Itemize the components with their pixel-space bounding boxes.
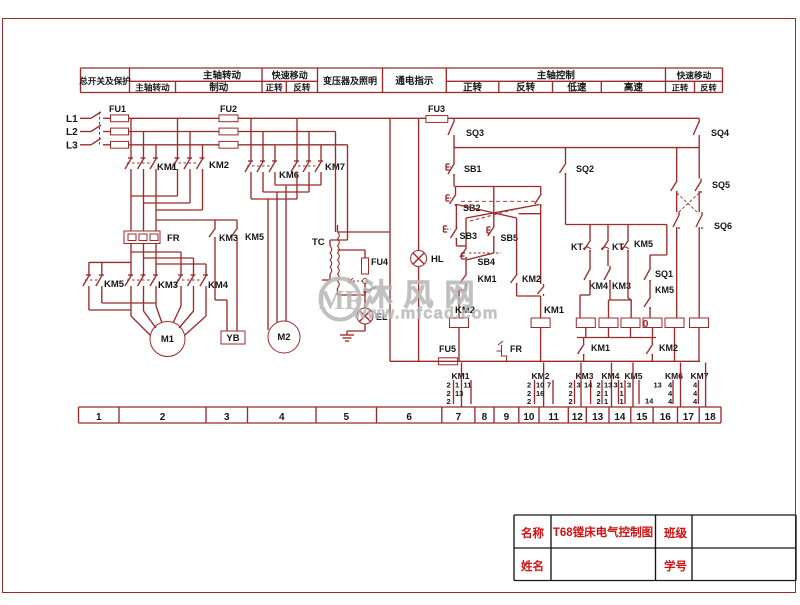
svg-text:通电指示: 通电指示 [395, 75, 434, 87]
svg-text:2: 2 [447, 397, 451, 406]
svg-text:KM3: KM3 [219, 233, 238, 243]
svg-text:9: 9 [504, 412, 510, 423]
svg-text:TC: TC [312, 237, 325, 248]
svg-text:L2: L2 [66, 127, 78, 138]
svg-text:KM5: KM5 [655, 285, 674, 295]
svg-text:13: 13 [592, 412, 604, 423]
svg-text:16: 16 [536, 389, 544, 398]
svg-text:FU1: FU1 [109, 104, 126, 114]
svg-text:SQ1: SQ1 [655, 269, 673, 279]
svg-text:KT: KT [571, 242, 583, 252]
svg-text:SQ3: SQ3 [466, 128, 484, 138]
svg-text:6: 6 [406, 412, 412, 423]
svg-text:快速移动: 快速移动 [677, 70, 712, 81]
svg-text:KM2: KM2 [209, 160, 229, 171]
svg-text:KM3: KM3 [576, 371, 594, 381]
svg-text:14: 14 [584, 381, 593, 390]
svg-text:主轴控制: 主轴控制 [537, 70, 576, 82]
svg-text:L1: L1 [66, 114, 78, 125]
svg-text:FU5: FU5 [439, 344, 456, 354]
svg-text:反转: 反转 [700, 83, 717, 93]
svg-text:低速: 低速 [566, 82, 587, 94]
svg-text:15: 15 [636, 412, 648, 423]
svg-text:11: 11 [464, 381, 472, 390]
svg-text:SB3: SB3 [460, 231, 478, 241]
svg-text:FU4: FU4 [371, 257, 388, 267]
svg-text:14: 14 [614, 412, 626, 423]
svg-text:18: 18 [705, 412, 717, 423]
svg-text:M2: M2 [277, 332, 290, 343]
svg-text:正转: 正转 [463, 82, 483, 94]
svg-text:反转: 反转 [293, 82, 311, 93]
svg-text:www.mfcad.com: www.mfcad.com [352, 305, 498, 323]
svg-text:2: 2 [597, 397, 601, 406]
svg-text:KM5: KM5 [104, 279, 125, 290]
svg-text:KM1: KM1 [591, 343, 610, 353]
svg-text:KM4: KM4 [208, 280, 229, 291]
svg-text:反转: 反转 [516, 82, 536, 94]
svg-text:制动: 制动 [209, 82, 229, 94]
svg-text:总开关及保护: 总开关及保护 [79, 75, 131, 86]
svg-text:7: 7 [456, 412, 462, 423]
svg-text:2: 2 [160, 412, 166, 423]
svg-text:1: 1 [96, 412, 102, 423]
svg-text:SQ5: SQ5 [712, 180, 730, 190]
svg-text:FR: FR [167, 233, 180, 244]
svg-text:0: 0 [643, 318, 649, 330]
svg-text:主轴转动: 主轴转动 [135, 82, 170, 93]
svg-text:KM5: KM5 [245, 232, 264, 242]
svg-text:SB4: SB4 [478, 257, 496, 267]
svg-text:L3: L3 [66, 140, 78, 151]
svg-text:变压器及照明: 变压器及照明 [323, 75, 377, 86]
svg-text:4: 4 [279, 412, 285, 423]
svg-text:1: 1 [620, 397, 624, 406]
svg-text:M1: M1 [161, 334, 175, 345]
svg-text:11: 11 [548, 412, 559, 423]
svg-text:14: 14 [645, 397, 654, 406]
svg-text:KM4: KM4 [602, 371, 620, 381]
svg-text:快速移动: 快速移动 [272, 70, 308, 81]
svg-text:FR: FR [510, 344, 522, 354]
svg-text:学号: 学号 [664, 559, 687, 573]
svg-text:SQ4: SQ4 [711, 128, 729, 138]
svg-text:3: 3 [627, 381, 631, 390]
svg-text:KM6: KM6 [279, 170, 299, 181]
svg-text:SB1: SB1 [464, 164, 482, 174]
svg-text:高速: 高速 [624, 82, 644, 94]
svg-text:KM3: KM3 [158, 280, 178, 291]
svg-text:3: 3 [614, 381, 618, 390]
svg-text:KM1: KM1 [157, 162, 178, 173]
svg-text:1: 1 [604, 397, 608, 406]
svg-text:5: 5 [343, 412, 349, 423]
svg-text:13: 13 [455, 389, 463, 398]
svg-text:KM5: KM5 [634, 239, 653, 249]
svg-text:正转: 正转 [672, 83, 689, 93]
svg-text:主轴转动: 主轴转动 [203, 70, 242, 82]
svg-text:HL: HL [431, 254, 444, 265]
svg-text:姓名: 姓名 [520, 559, 544, 573]
svg-text:班级: 班级 [664, 526, 687, 540]
svg-text:7: 7 [547, 381, 551, 390]
svg-text:KM4: KM4 [589, 281, 608, 291]
svg-text:SQ6: SQ6 [714, 221, 732, 231]
svg-text:名称: 名称 [521, 526, 544, 540]
svg-text:正转: 正转 [265, 82, 283, 93]
svg-text:17: 17 [683, 412, 695, 423]
svg-text:KM1: KM1 [544, 305, 565, 316]
svg-text:SB5: SB5 [501, 233, 519, 243]
svg-text:KM1: KM1 [452, 371, 470, 381]
svg-text:KT: KT [612, 242, 624, 252]
svg-text:FU3: FU3 [428, 104, 445, 114]
svg-text:SQ2: SQ2 [576, 164, 594, 174]
svg-text:12: 12 [572, 412, 584, 423]
svg-text:3: 3 [224, 412, 230, 423]
svg-text:YB: YB [226, 333, 239, 344]
svg-text:KM2: KM2 [522, 274, 541, 284]
svg-text:2: 2 [569, 397, 573, 406]
svg-text:2: 2 [527, 397, 531, 406]
svg-text:16: 16 [660, 412, 672, 423]
svg-text:FU2: FU2 [220, 104, 237, 114]
svg-text:13: 13 [654, 381, 662, 390]
svg-text:8: 8 [482, 412, 488, 423]
svg-text:KM2: KM2 [659, 343, 678, 353]
svg-text:10: 10 [523, 412, 535, 423]
svg-text:T68镗床电气控制图: T68镗床电气控制图 [553, 525, 653, 539]
svg-text:KM2: KM2 [532, 371, 550, 381]
svg-text:3: 3 [577, 381, 581, 390]
